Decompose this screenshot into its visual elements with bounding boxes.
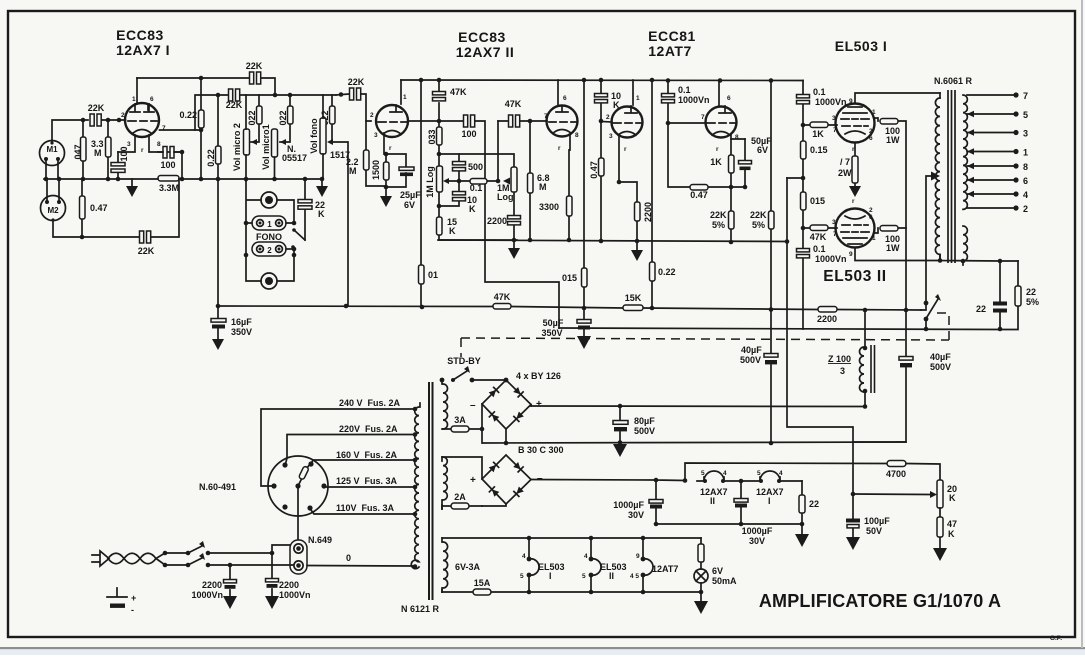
resistor 7ohm 2W + arrow — [854, 143, 856, 187]
resistor 015 — [801, 192, 807, 210]
svg-text:9: 9 — [636, 553, 640, 560]
svg-text:1000Vn: 1000Vn — [815, 97, 847, 107]
resistor 033 — [438, 121, 440, 154]
EL503 I plate wire to transformer — [855, 93, 940, 104]
resistor 0.1 (horizontal) — [449, 180, 498, 182]
svg-text:6: 6 — [563, 95, 567, 102]
tap 7 — [967, 94, 1016, 96]
top rail y78 — [137, 78, 275, 95]
potentiometer Vol micro 2 — [244, 129, 250, 155]
capacitor 100 (coupling) — [439, 121, 559, 328]
long B+ vertical x423 with resistor 0.1 — [420, 80, 422, 307]
pentode EL503 I — [836, 104, 875, 143]
capacitor 0.1 1000Vn (EL503 II) — [797, 249, 810, 252]
resistor 3.3M (grid leak) — [107, 120, 109, 179]
feedback tap arrow on primary — [931, 172, 940, 181]
tap 6 — [967, 179, 1016, 181]
svg-text:1000µF: 1000µF — [613, 500, 644, 510]
capacitor 22K (rail) — [250, 72, 254, 84]
cathode bus y240 — [438, 240, 787, 242]
svg-text:40µF: 40µF — [741, 345, 762, 355]
svg-text:125 V Fus. 3A: 125 V Fus. 3A — [336, 476, 398, 486]
svg-text:5%: 5% — [752, 220, 765, 230]
M2 to 22K line — [53, 221, 82, 237]
bridge2 wiring — [442, 457, 506, 506]
svg-text:22K: 22K — [226, 100, 243, 110]
voltage selector N.60-491 — [268, 456, 328, 516]
cathode wires V1 — [118, 135, 182, 152]
tap 4 — [967, 193, 1016, 195]
svg-text:12AX7 II: 12AX7 II — [456, 44, 514, 60]
svg-text:100: 100 — [461, 129, 476, 139]
svg-text:25µF: 25µF — [400, 190, 421, 200]
resistor 22 (heater) — [801, 481, 803, 524]
wire V1 plate — [160, 129, 202, 131]
svg-text:K: K — [948, 529, 955, 539]
svg-text:0.1: 0.1 — [678, 85, 691, 95]
heater EL503 II — [590, 538, 592, 592]
svg-text:5: 5 — [701, 470, 705, 477]
svg-text:033: 033 — [427, 129, 437, 144]
svg-text:8: 8 — [735, 134, 739, 141]
mains plug — [92, 551, 109, 566]
svg-text:-: - — [131, 605, 134, 615]
svg-text:2: 2 — [121, 112, 125, 119]
svg-text:022: 022 — [278, 110, 288, 125]
svg-text:7: 7 — [162, 125, 166, 132]
svg-text:M: M — [539, 182, 547, 192]
STD-BY switch — [440, 378, 445, 383]
svg-text:3: 3 — [127, 141, 131, 148]
ground arrow (22) — [801, 524, 803, 534]
svg-text:2: 2 — [370, 112, 374, 119]
long line y306 (B+ distr) — [218, 306, 921, 310]
svg-text:K: K — [318, 209, 325, 219]
V4 cathode + resistor 2200 — [619, 136, 637, 241]
svg-text:N.6061 R: N.6061 R — [934, 76, 973, 86]
bottom scan line — [0, 647, 1085, 649]
capacitor 80uF 500V — [619, 406, 621, 420]
svg-text:22K: 22K — [88, 103, 105, 113]
svg-text:22: 22 — [976, 304, 986, 314]
svg-text:8: 8 — [575, 132, 579, 139]
svg-text:16µF: 16µF — [231, 317, 252, 327]
svg-text:015: 015 — [562, 273, 577, 283]
fuse 2A — [442, 506, 482, 509]
svg-text:47K: 47K — [450, 87, 467, 97]
svg-text:3300: 3300 — [539, 202, 559, 212]
svg-text:Z 100: Z 100 — [828, 354, 851, 364]
rail y95 — [195, 95, 336, 130]
resistor 4700 — [887, 461, 906, 467]
svg-text:9: 9 — [849, 98, 853, 105]
wire v1 node down — [181, 152, 183, 179]
tap 8 — [967, 165, 1016, 167]
resistor 1K (V5) — [730, 139, 732, 187]
fuse 15A — [473, 589, 491, 595]
ground arrow (fono pot) — [321, 179, 323, 186]
svg-text:1: 1 — [132, 96, 136, 103]
resistor 22K 5% (V5 cathode) — [730, 187, 732, 242]
heater rail top y538 — [442, 537, 701, 539]
svg-text:2200: 2200 — [817, 314, 837, 324]
svg-text:4: 4 — [723, 470, 727, 477]
ground arrow (50uF) — [583, 330, 585, 336]
capacitor 22 — [999, 261, 1001, 329]
heater 12AX7 I — [760, 471, 780, 481]
svg-text:22K: 22K — [750, 210, 767, 220]
wire fono wiper to down line — [332, 142, 348, 306]
lamp 6V 50mA — [694, 569, 708, 583]
ground arrow (V1 cathode bus) — [131, 179, 133, 186]
svg-text:47K: 47K — [810, 232, 827, 242]
resistor 3.3M (horizontal on bus) — [158, 176, 179, 182]
svg-text:+: + — [536, 399, 542, 410]
svg-text:50V: 50V — [866, 526, 882, 536]
svg-text:8: 8 — [1023, 162, 1028, 172]
svg-text:0.1: 0.1 — [813, 87, 826, 97]
svg-text:22: 22 — [809, 499, 819, 509]
svg-text:350V: 350V — [231, 327, 252, 337]
svg-text:1W: 1W — [886, 243, 900, 253]
fuse 3A — [442, 428, 482, 430]
svg-text:5%: 5% — [1026, 297, 1039, 307]
svg-text:6: 6 — [727, 95, 731, 102]
capacitor 100 (cathode, vertical) — [117, 152, 119, 179]
svg-text:6: 6 — [1023, 176, 1028, 186]
svg-text:+: + — [131, 593, 136, 603]
resistor 2200 (on B+ line) — [818, 307, 837, 313]
resistor 1500 — [385, 154, 387, 187]
svg-text:+: + — [470, 475, 476, 486]
M1 lower pins to bus — [46, 161, 59, 200]
capacitor 10K (V4 grid) — [601, 80, 612, 122]
tap 1 — [967, 151, 1016, 153]
svg-text:1K: 1K — [710, 157, 722, 167]
svg-text:22K: 22K — [348, 77, 365, 87]
svg-text:M2: M2 — [47, 206, 59, 215]
svg-text:6V: 6V — [757, 145, 768, 155]
svg-text:3.3M: 3.3M — [159, 183, 179, 193]
resistor 022 #3 — [331, 95, 333, 142]
capacitor 2200 (fono eq) — [508, 216, 521, 219]
svg-text:7: 7 — [833, 231, 837, 238]
long vertical x584 with resistor 0.15 — [583, 80, 585, 308]
capacitor 10K — [439, 181, 459, 206]
capacitor 50uF 6V — [744, 139, 746, 187]
dashed linkage — [461, 338, 949, 340]
resistor 22K 5% (from rail) — [770, 81, 772, 310]
svg-text:Vol fono: Vol fono — [309, 118, 319, 154]
capacitor 22K (M2 line) — [82, 179, 179, 237]
svg-text:5: 5 — [1023, 110, 1028, 120]
potentiometer Vol fono — [320, 118, 326, 154]
svg-text:1: 1 — [1023, 148, 1028, 158]
svg-text:7: 7 — [1023, 91, 1028, 101]
svg-text:N.649: N.649 — [308, 535, 332, 545]
resistor 0.22 (to pots) — [217, 95, 219, 306]
resistor 0.22 (x652) — [651, 80, 653, 308]
potentiometer 20K — [937, 480, 943, 508]
svg-text:40µF: 40µF — [930, 352, 951, 362]
resistor 022 #2 — [280, 95, 290, 142]
svg-text:1M Log: 1M Log — [425, 166, 435, 198]
svg-text:1: 1 — [636, 95, 640, 102]
svg-text:1W: 1W — [886, 135, 900, 145]
mains switch upper — [163, 551, 168, 556]
svg-text:5: 5 — [582, 573, 586, 580]
ground bus y179 — [44, 178, 322, 180]
ground arrow (47K) — [933, 548, 947, 561]
svg-text:9: 9 — [849, 251, 853, 258]
svg-text:K: K — [469, 204, 476, 214]
heater 12AX7 II — [704, 471, 724, 481]
capacitor 22K (V2 grid) — [336, 94, 371, 121]
resistor 2.2M (V2 grid leak) — [366, 121, 386, 186]
bridge1 to caps — [530, 405, 532, 407]
svg-text:0.1: 0.1 — [813, 244, 826, 254]
resistor 0.22 (V1 plate) — [200, 78, 202, 179]
mic connector M1 — [40, 141, 65, 166]
svg-text:100µF: 100µF — [864, 516, 890, 526]
lamp ballast resistor — [700, 538, 702, 569]
svg-text:047: 047 — [73, 144, 83, 159]
selector arm — [298, 464, 310, 486]
capacitor 0.1 1000Vn (V5 grid) — [668, 81, 704, 124]
svg-text:M1: M1 — [46, 145, 58, 154]
svg-text:500V: 500V — [634, 426, 655, 436]
svg-text:N.60-491: N.60-491 — [199, 482, 236, 492]
capacitor 16uF 350V — [217, 306, 219, 318]
svg-text:12AX7 I: 12AX7 I — [116, 42, 170, 58]
svg-text:STD-BY: STD-BY — [447, 356, 481, 366]
svg-text:3: 3 — [1023, 129, 1028, 139]
svg-text:2: 2 — [267, 246, 272, 255]
svg-text:05517: 05517 — [282, 153, 307, 163]
svg-text:M: M — [94, 148, 102, 158]
resistor 47K (bottom right) — [939, 508, 941, 548]
resistor 15K (vertical) — [439, 206, 517, 240]
svg-text:1: 1 — [403, 94, 407, 101]
svg-text:1: 1 — [267, 220, 272, 229]
ground arrow (16uF) — [217, 329, 219, 339]
transformer core — [948, 90, 955, 263]
svg-text:5%: 5% — [712, 220, 725, 230]
svg-text:47K: 47K — [494, 292, 511, 302]
svg-text:II: II — [710, 496, 715, 506]
ground arrow (heater) — [700, 592, 702, 601]
triode V5 — [706, 107, 737, 138]
svg-text:Vol micro 2: Vol micro 2 — [232, 123, 242, 171]
svg-text:50mA: 50mA — [712, 576, 737, 586]
svg-text:12AT7: 12AT7 — [648, 43, 691, 59]
svg-text:3: 3 — [832, 219, 836, 226]
resistor 15K (on B+ line) — [623, 305, 643, 311]
vertical x787 (bias line) — [787, 178, 853, 494]
svg-text:15K: 15K — [625, 293, 642, 303]
svg-text:2: 2 — [606, 114, 610, 121]
resistor 1K (EL503 I grid) — [803, 124, 837, 126]
svg-text:EL503 I: EL503 I — [835, 38, 888, 54]
svg-text:5: 5 — [757, 470, 761, 477]
tap 5 — [967, 113, 1016, 115]
secondary coil upper — [963, 95, 967, 209]
svg-text:/ 7: / 7 — [840, 157, 850, 167]
svg-text:01: 01 — [428, 270, 438, 280]
RCA jack bottom — [261, 273, 277, 289]
heater rail bottom y592 — [442, 591, 701, 593]
svg-text:0.47: 0.47 — [589, 161, 599, 179]
svg-text:160 V Fus. 2A: 160 V Fus. 2A — [336, 450, 398, 460]
rail y80 (2nd B+) — [401, 79, 803, 82]
svg-text:110V Fus. 3A: 110V Fus. 3A — [336, 503, 395, 513]
capacitor 100uF 50V — [852, 494, 854, 537]
plate line y261 extension — [940, 255, 1018, 265]
svg-text:0.47: 0.47 — [690, 190, 708, 200]
potentiometer Vol micro 1 — [272, 129, 278, 157]
svg-text:AMPLIFICATORE G1/1070 A: AMPLIFICATORE G1/1070 A — [759, 591, 1001, 611]
svg-text:G.P.: G.P. — [1050, 635, 1062, 642]
svg-text:1000µF: 1000µF — [742, 526, 773, 536]
cathode V2 — [384, 133, 406, 187]
svg-text:2W: 2W — [838, 168, 852, 178]
RCA jack top — [261, 192, 277, 208]
svg-text:2200: 2200 — [279, 580, 299, 590]
svg-text:12AT7: 12AT7 — [652, 564, 678, 574]
svg-text:ECC83: ECC83 — [116, 27, 164, 43]
power transformer core — [429, 382, 433, 600]
FONO left vertical — [246, 179, 261, 281]
ground arrow (bus under V4) — [636, 241, 638, 250]
svg-text:I: I — [768, 496, 771, 506]
svg-text:6V: 6V — [712, 566, 723, 576]
resistor 0.47 (V4 grid leak) — [600, 121, 602, 241]
heater dc chain y481 — [685, 463, 887, 481]
svg-text:EL503 II: EL503 II — [823, 268, 886, 285]
svg-text:2: 2 — [869, 128, 873, 135]
capacitor 1000uF 30V (first) — [655, 480, 657, 524]
resistor 22 5% — [1000, 261, 1018, 330]
fono right wiring + switch — [277, 200, 305, 255]
pin connector 1 — [252, 216, 286, 230]
capacitor 500 — [458, 154, 460, 181]
tap 2 — [967, 207, 1016, 209]
ground arrow (100uF) — [846, 537, 860, 550]
capacitor 40uF 500V (left) — [770, 310, 772, 444]
power transformer heater winding — [441, 538, 443, 592]
resistor 047 (M1 load) — [82, 120, 84, 179]
svg-text:6V-3A: 6V-3A — [455, 562, 481, 572]
svg-text:47K: 47K — [505, 99, 522, 109]
svg-text:1500: 1500 — [371, 160, 381, 180]
svg-text:15A: 15A — [474, 578, 491, 588]
resistor 6.8M — [529, 121, 531, 240]
mains switch lower — [163, 563, 168, 568]
svg-text:240 V Fus. 2A: 240 V Fus. 2A — [339, 398, 401, 408]
triode V2 ECC83-II — [376, 105, 408, 137]
svg-text:3: 3 — [374, 132, 378, 139]
triode V3 — [547, 106, 578, 137]
EL503 II plate wire — [855, 248, 940, 261]
svg-text:4: 4 — [584, 553, 588, 560]
svg-text:0.47: 0.47 — [90, 203, 108, 213]
svg-text:2200: 2200 — [487, 216, 507, 226]
svg-text:0.22: 0.22 — [658, 267, 676, 277]
svg-text:4700: 4700 — [886, 469, 906, 479]
svg-text:8: 8 — [157, 141, 161, 148]
svg-text:4: 4 — [1023, 190, 1028, 200]
svg-text:1000Vn: 1000Vn — [815, 254, 847, 264]
svg-text:3A: 3A — [454, 415, 466, 425]
wire M1 to grid — [52, 120, 88, 141]
triode V1 ECC83-I — [125, 103, 159, 137]
svg-text:30V: 30V — [749, 536, 765, 546]
svg-text:2200: 2200 — [202, 580, 222, 590]
svg-text:3: 3 — [840, 366, 845, 376]
0 line to transformer — [307, 566, 415, 568]
tap 3 — [967, 132, 1016, 134]
svg-text:5: 5 — [520, 573, 524, 580]
power transformer primary winding — [419, 403, 421, 407]
ground arrow (V2 cathode) — [385, 187, 387, 196]
svg-text:50µF: 50µF — [543, 318, 564, 328]
resistor 022 #1 — [251, 95, 259, 142]
svg-text:B 30 C 300: B 30 C 300 — [518, 445, 564, 455]
svg-text:0.15: 0.15 — [810, 145, 828, 155]
svg-text:100: 100 — [160, 160, 175, 170]
resistor 0.47 (feedback) — [668, 123, 745, 187]
power transformer LV winding — [441, 457, 443, 509]
capacitor 1000uF 30V (second) — [740, 481, 742, 524]
svg-text:–: – — [470, 400, 476, 411]
svg-text:4 x BY 126: 4 x BY 126 — [516, 371, 561, 381]
line y329 to ground side — [559, 328, 1000, 330]
resistor 0.15 — [801, 141, 807, 159]
svg-text:6: 6 — [869, 135, 873, 142]
svg-text:Vol micro1: Vol micro1 — [261, 124, 271, 169]
ground arrow (bus y240) — [513, 240, 515, 248]
svg-text:4: 4 — [522, 553, 526, 560]
svg-text:1000Vn: 1000Vn — [678, 95, 710, 105]
selector center to N.649 — [297, 489, 299, 541]
capacitor 0.1 1000Vn (EL503 I) — [797, 95, 810, 98]
svg-text:7: 7 — [544, 113, 548, 120]
svg-text:022: 022 — [247, 110, 257, 125]
svg-text:22K: 22K — [246, 61, 263, 71]
line y443 (bridge minus) — [483, 442, 906, 443]
choke Z100/3 — [864, 310, 866, 407]
resistor 100 1W (EL503 II screen) — [874, 228, 906, 233]
capacitor 22K (rail y95) — [229, 89, 233, 101]
capacitor 47K (V2 plate load) — [438, 80, 440, 121]
svg-text:1: 1 — [872, 109, 876, 116]
capacitor 47K (coupling to V3) — [498, 120, 547, 122]
svg-text:4 5: 4 5 — [630, 573, 639, 580]
svg-text:22K: 22K — [138, 246, 155, 256]
svg-text:ECC81: ECC81 — [648, 28, 696, 44]
capacitor 40uF 500V (right) — [853, 311, 906, 442]
capacitor 2200 1000Vn (left) — [229, 565, 231, 596]
svg-text:4: 4 — [779, 470, 783, 477]
svg-text:22: 22 — [1026, 287, 1036, 297]
pentode EL503 II — [836, 209, 875, 248]
svg-text:II: II — [609, 571, 614, 581]
svg-text:22K: 22K — [710, 210, 727, 220]
svg-text:1000Vn: 1000Vn — [279, 590, 311, 600]
svg-text:500: 500 — [468, 162, 483, 172]
mic connector M2 — [41, 196, 66, 221]
svg-text:500V: 500V — [930, 362, 951, 372]
